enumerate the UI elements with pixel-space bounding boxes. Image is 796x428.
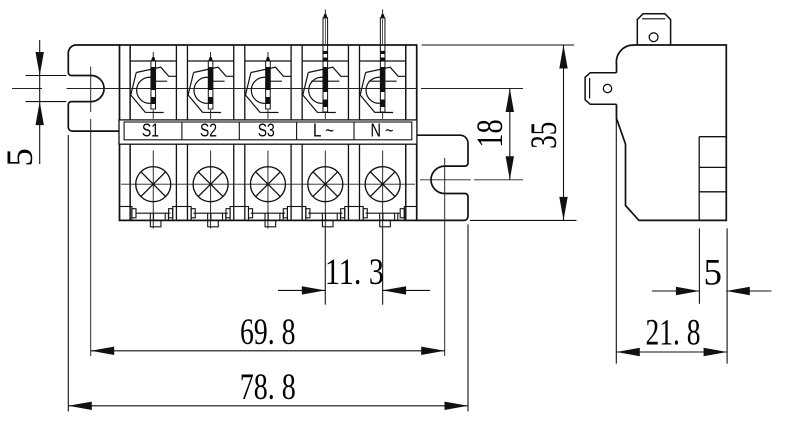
left end foot block [120, 207, 132, 221]
cell 4 vertical centerline [324, 151, 326, 305]
screw head cell 5 [365, 167, 400, 202]
screw cross cell 4 [313, 172, 338, 197]
left slot vertical centerline [90, 67, 92, 113]
side view body outline [616, 45, 726, 220]
cell 5 vertical centerline [382, 151, 384, 305]
dim 11.3 left arrow line [278, 289, 325, 291]
svg-text:18: 18 [470, 119, 511, 148]
cell foot ledge [308, 212, 342, 214]
cell bottom tab [322, 220, 333, 226]
dim 69.8 right extension line [444, 158, 446, 356]
svg-text:69. 8: 69. 8 [240, 312, 296, 353]
dim 11.3 right arrow line [383, 289, 430, 291]
side dim 5 mid extension line [698, 228, 700, 303]
cell foot ledge [251, 212, 285, 214]
svg-text:35: 35 [524, 122, 565, 149]
cell 3 vertical centerline [267, 151, 269, 229]
cell bottom tab [265, 220, 276, 226]
cell 4 clamp arc [309, 77, 324, 103]
svg-text:N ~: N ~ [371, 121, 394, 141]
cell 4 wire clamp [308, 67, 348, 76]
label divider [353, 122, 355, 140]
cell foot ledge [193, 212, 227, 214]
dim 18 top extension line [421, 88, 523, 90]
terminal pin cell 4 (tall blade) [324, 10, 326, 15]
left blade hole [603, 84, 611, 92]
cell bottom tab [208, 220, 219, 226]
screw cross cell 5 [370, 172, 395, 197]
cell 5 wire clamp [366, 67, 406, 76]
screw head cell 3 [250, 167, 285, 202]
svg-text:S1: S1 [142, 121, 159, 141]
svg-text:11. 3: 11. 3 [325, 252, 384, 293]
cell 4 inner top edge [302, 60, 348, 62]
terminal cell 3 walls [244, 45, 246, 220]
cell 2 inner top edge [187, 60, 233, 62]
right end foot block [404, 207, 416, 221]
cell 2 clamp arc [194, 77, 209, 103]
terminal cell 2 walls [186, 45, 188, 220]
cell 4 clamp slot line [311, 80, 339, 82]
cell 3 clamp slot line [270, 80, 282, 82]
dim 11.3 right extension (N centerline) [382, 229, 384, 305]
terminal pin cell 3 [267, 52, 269, 58]
cell bottom tab [150, 220, 161, 226]
side view left blade terminal [585, 73, 616, 105]
cell 1 vertical centerline [152, 151, 154, 229]
terminal block body outline [120, 45, 417, 220]
top blade inner edge [642, 18, 665, 20]
screw head cell 4 [308, 167, 343, 202]
cell 5 inner top edge [360, 60, 406, 62]
svg-text:S2: S2 [200, 121, 217, 141]
cell 1 clamp slot line [155, 80, 167, 82]
divider foot block [345, 207, 363, 221]
screw head cell 2 [193, 167, 228, 202]
left inner wall [129, 45, 131, 220]
dim 11.3 left extension (L centerline) [324, 229, 326, 305]
right mounting wing with slot [417, 135, 468, 220]
svg-text:78. 8: 78. 8 [240, 367, 296, 408]
cell 1 wire clamp [136, 67, 176, 76]
dim 78.8 left extension line [67, 135, 69, 412]
label divider [181, 122, 183, 140]
svg-text:5: 5 [704, 253, 723, 294]
body top edge over pin [380, 44, 386, 46]
cell foot ledge [136, 212, 170, 214]
dim 69.8 left extension line [90, 119, 92, 356]
left blade inner edge [589, 78, 591, 99]
cell 1 clamp arc [137, 77, 152, 103]
side view top blade terminal [637, 14, 670, 46]
dim 21.8 left extension line [615, 105, 617, 364]
dim 5 left top arrow [36, 52, 44, 76]
cell 2 vertical centerline [210, 151, 212, 229]
screw head cell 1 [136, 167, 171, 202]
dim 18 dimension line [509, 89, 511, 180]
terminal pin cell 1 [152, 52, 154, 58]
svg-text:5: 5 [0, 148, 41, 167]
dim 5 left bottom arrow [36, 102, 44, 126]
right inner wall [405, 45, 407, 220]
cell 3 wire clamp [251, 67, 291, 76]
cell 2 clamp slot line [213, 80, 225, 82]
label strip inner box [124, 122, 412, 140]
dim 69.8 dimension line [91, 350, 445, 352]
screw cross cell 3 [255, 172, 280, 197]
svg-text:21. 8: 21. 8 [646, 312, 701, 353]
terminal cell 4 walls [301, 45, 303, 220]
label strip outer box [119, 120, 417, 144]
terminal cell 1 walls [129, 45, 131, 220]
cell 5 clamp arc [366, 77, 381, 103]
top blade hole [649, 33, 658, 42]
svg-text:L ~: L ~ [313, 121, 334, 141]
cell 3 clamp arc [251, 77, 266, 103]
cell 1 inner top edge [130, 60, 176, 62]
body top edge over pin [323, 44, 329, 46]
dim 78.8 right extension line [467, 224, 469, 411]
dim 35 bottom extension line [470, 219, 577, 221]
dim 78.8 dimension line [68, 405, 468, 407]
divider foot block [230, 207, 248, 221]
screw cross cell 1 [141, 172, 166, 197]
cell 5 clamp slot line [369, 80, 397, 82]
screw cross cell 2 [198, 172, 223, 197]
dim 35 top extension line [422, 44, 574, 46]
svg-text:S3: S3 [258, 121, 275, 141]
terminal pin cell 2 [210, 52, 212, 58]
side dim 5 right arrow line [726, 290, 771, 292]
label divider [238, 122, 240, 140]
label divider [296, 122, 298, 140]
dim 21.8 right extension line [726, 228, 728, 363]
left mounting wing with slot [68, 45, 119, 131]
cell 2 wire clamp [194, 67, 234, 76]
dim 21.8 dimension line [616, 351, 727, 353]
dim 5 left dimension line [39, 40, 41, 164]
dim 5 left: extension lines [26, 75, 67, 77]
dim 35 dimension line [563, 45, 565, 220]
terminal pin cell 5 (tall blade) [382, 10, 384, 15]
cell foot ledge [365, 212, 399, 214]
side dim 5 left arrow line [652, 290, 699, 292]
cell 3 inner top edge [245, 60, 291, 62]
divider foot block [173, 207, 191, 221]
terminal cell 5 walls [359, 45, 361, 220]
screw horizontal centerline [121, 183, 415, 185]
dim 18 bottom extension / right slot centerline [420, 179, 471, 181]
cell bottom tab [380, 220, 391, 226]
clamp horizontal centerline [12, 88, 42, 90]
side view rail steps [698, 137, 700, 221]
divider foot block [287, 207, 305, 221]
